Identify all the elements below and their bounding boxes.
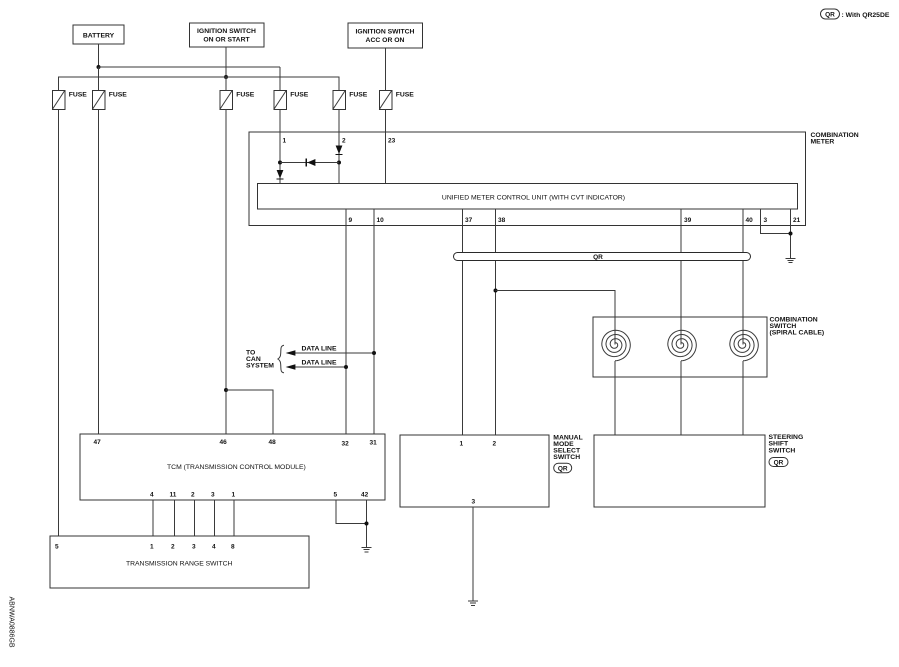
svg-text:FUSE: FUSE — [109, 92, 128, 99]
svg-text:BATTERY: BATTERY — [83, 33, 115, 40]
svg-text:FUSE: FUSE — [396, 92, 415, 99]
svg-text:FUSE: FUSE — [349, 92, 368, 99]
fuse F2 — [92, 91, 127, 110]
svg-text:DATA LINE: DATA LINE — [302, 359, 337, 366]
svg-text:10: 10 — [377, 217, 385, 224]
wire spiral3 out — [742, 361, 744, 435]
svg-text:QR: QR — [558, 465, 568, 472]
svg-text:1: 1 — [232, 492, 236, 499]
ground TCM — [362, 548, 372, 552]
svg-text:TRANSMISSION RANGE SWITCH: TRANSMISSION RANGE SWITCH — [126, 560, 233, 567]
legend QR oval — [821, 9, 840, 19]
svg-text:QR: QR — [593, 254, 603, 261]
wire ignition2 drop — [385, 48, 387, 91]
svg-text:3: 3 — [472, 499, 476, 506]
node battery junction — [97, 65, 101, 69]
node pin46/48 tee — [224, 388, 228, 392]
wire pin38 to MMSS pin2 — [495, 209, 497, 435]
MMSS QR oval — [554, 463, 572, 473]
fuse F3 — [220, 91, 255, 110]
svg-text:39: 39 — [684, 217, 692, 224]
ground MMSS — [468, 601, 478, 605]
wire pin37 to MMSS pin1 — [462, 209, 464, 435]
svg-text:5: 5 — [334, 492, 338, 499]
svg-text:FUSE: FUSE — [69, 92, 88, 99]
diode D3 (pin1 wire, down) — [276, 170, 283, 179]
svg-text:31: 31 — [370, 440, 378, 447]
wire TCM pin42 to ground — [366, 500, 368, 548]
wire branch to spiral1 — [496, 291, 616, 345]
unified meter control unit box — [258, 184, 798, 210]
wire TCM to TRS x=194.5 — [194, 500, 196, 536]
wire fuse1 to TRS pin5 — [58, 110, 60, 537]
svg-text:ABNWA0886GB: ABNWA0886GB — [8, 597, 15, 648]
svg-text:SYSTEM: SYSTEM — [246, 363, 274, 370]
diode D1 (pin2 wire, down) — [335, 146, 342, 155]
wire meter pin2 internal — [338, 132, 340, 184]
wire diode jumper — [280, 162, 339, 164]
ignition switch acc or on box — [348, 23, 423, 48]
svg-text:METER: METER — [811, 139, 835, 146]
spiral coil 2 — [668, 330, 697, 361]
svg-text:TCM (TRANSMISSION CONTROL MODU: TCM (TRANSMISSION CONTROL MODULE) — [167, 464, 306, 471]
svg-text:1: 1 — [283, 137, 287, 144]
wire fuse2 to TCM pin47 — [98, 110, 100, 435]
svg-text:37: 37 — [465, 217, 473, 224]
svg-text:5: 5 — [55, 544, 59, 551]
ignition switch on or start box — [190, 23, 265, 47]
wire battery junction to fuse2 — [98, 67, 100, 91]
combination switch spiral cable box — [593, 317, 767, 377]
svg-text:QR: QR — [774, 459, 784, 466]
svg-text:1: 1 — [150, 544, 154, 551]
wire TCM to TRS x=234 — [233, 500, 235, 536]
wire spiral1 out — [614, 361, 616, 435]
fuse F1 — [52, 91, 87, 110]
svg-text:9: 9 — [349, 217, 353, 224]
spiral coil 1 — [602, 330, 631, 361]
svg-text:2: 2 — [342, 137, 346, 144]
wire TCM to TRS x=174.5 — [174, 500, 176, 536]
svg-text:SWITCH: SWITCH — [769, 447, 796, 454]
manual mode select switch box — [400, 435, 549, 507]
svg-text:UNIFIED METER CONTROL UNIT (WI: UNIFIED METER CONTROL UNIT (WITH CVT IND… — [442, 195, 625, 202]
svg-text:4: 4 — [150, 492, 154, 499]
svg-text:23: 23 — [388, 137, 396, 144]
wire ignition1 drop — [225, 47, 227, 77]
wire pin21 to ground — [790, 209, 792, 258]
node pin2 tee — [337, 161, 341, 165]
svg-text:3: 3 — [764, 217, 768, 224]
wire pin3 stub — [761, 209, 791, 234]
node data line 1 — [372, 351, 376, 355]
node pin3/21 junction — [789, 232, 793, 236]
transmission range switch box — [50, 536, 309, 588]
svg-text:3: 3 — [211, 492, 215, 499]
spiral coil 3 — [730, 330, 759, 361]
QR harness bus — [454, 253, 751, 261]
wire fuse3 to TCM pin46 — [225, 110, 227, 435]
wire battery drop — [98, 44, 100, 67]
diode D2 (jumper, left) — [306, 159, 315, 167]
node pin1 tee — [278, 161, 282, 165]
data line 2 arrow — [286, 364, 346, 370]
svg-text:32: 32 — [342, 441, 350, 448]
svg-text:IGNITION SWITCH: IGNITION SWITCH — [356, 29, 415, 36]
svg-text:3: 3 — [192, 544, 196, 551]
svg-text:ON OR START: ON OR START — [203, 37, 250, 44]
brace — [278, 345, 284, 373]
svg-text:42: 42 — [361, 492, 369, 499]
svg-text:4: 4 — [212, 544, 216, 551]
svg-text:2: 2 — [493, 441, 497, 448]
wire TCM to TRS x=153 — [152, 500, 154, 536]
svg-text:11: 11 — [170, 492, 177, 499]
svg-text:2: 2 — [191, 492, 195, 499]
wire pin10 to TCM pin31 — [373, 209, 375, 434]
wire pin9 to TCM pin32 — [345, 209, 347, 434]
wire bus line 1 — [99, 67, 281, 91]
combination meter box — [249, 132, 806, 226]
svg-text:SWITCH: SWITCH — [553, 454, 580, 461]
svg-text:40: 40 — [746, 217, 754, 224]
svg-text:: With QR25DE: : With QR25DE — [842, 12, 890, 19]
wire pin40 to spiral3 — [742, 209, 744, 345]
wire fuse6 to meter pin23 — [385, 110, 387, 133]
node data line 2 — [344, 365, 348, 369]
svg-text:21: 21 — [793, 217, 801, 224]
steering shift switch box — [594, 435, 765, 507]
wire fuse5 to meter pin2 — [338, 110, 340, 133]
svg-text:IGNITION SWITCH: IGNITION SWITCH — [197, 28, 256, 35]
wire meter pin23 internal — [385, 132, 387, 184]
battery box — [73, 25, 124, 44]
svg-text:(SPIRAL CABLE): (SPIRAL CABLE) — [770, 330, 825, 337]
svg-text:DATA LINE: DATA LINE — [302, 345, 337, 352]
svg-text:FUSE: FUSE — [236, 92, 255, 99]
wire bus line 2 — [59, 77, 340, 91]
svg-text:47: 47 — [94, 439, 102, 446]
wire spiral2 out — [680, 361, 682, 435]
svg-text:ACC OR ON: ACC OR ON — [366, 37, 405, 44]
wire MMSS pin3 to ground — [472, 507, 474, 601]
svg-text:QR: QR — [825, 11, 835, 18]
svg-text:FUSE: FUSE — [290, 92, 309, 99]
fuse F6 — [379, 91, 414, 110]
wire pin39 to spiral2 — [680, 209, 682, 345]
node pin38 tee — [494, 289, 498, 293]
svg-text:46: 46 — [220, 439, 228, 446]
node pin5/42 junction — [365, 522, 369, 526]
wire branch to TCM pin48 — [226, 390, 273, 434]
fuse F5 — [333, 91, 368, 110]
TCM box — [80, 434, 385, 500]
svg-text:38: 38 — [498, 217, 506, 224]
svg-text:48: 48 — [269, 439, 277, 446]
SSS QR oval — [769, 458, 788, 467]
wire TCM to TRS x=214.5 — [214, 500, 216, 536]
data line 1 arrow — [286, 350, 374, 356]
ground meter — [786, 258, 796, 262]
node ignition1 junction — [224, 75, 228, 79]
fuse F4 — [274, 91, 309, 110]
svg-text:8: 8 — [231, 544, 235, 551]
svg-text:2: 2 — [171, 544, 175, 551]
wire fuse4 to meter pin1 — [279, 110, 281, 133]
wire meter pin1 internal — [279, 132, 281, 184]
svg-text:1: 1 — [460, 441, 464, 448]
wire TCM pin5 stub — [336, 500, 367, 524]
